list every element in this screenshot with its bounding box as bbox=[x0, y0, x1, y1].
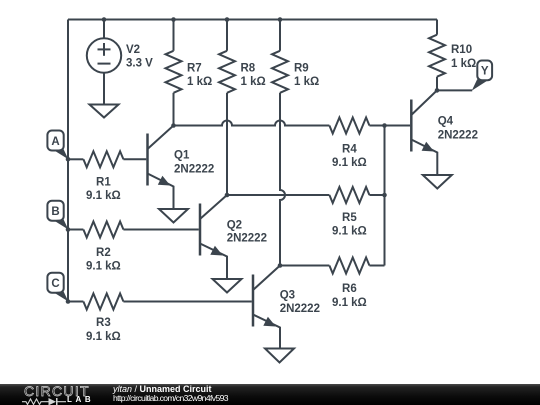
node Q2 collector / R8 bottom bbox=[225, 193, 230, 198]
transistor Q1 bbox=[148, 126, 174, 210]
svg-text:9.1 kΩ: 9.1 kΩ bbox=[86, 260, 121, 272]
svg-text:B: B bbox=[51, 206, 59, 218]
svg-text:1 kΩ: 1 kΩ bbox=[241, 76, 266, 88]
svg-text:R2: R2 bbox=[96, 247, 111, 259]
logo resistor-diode icon bbox=[22, 397, 68, 405]
resistor R5 bbox=[329, 187, 384, 203]
wire Q4 base bbox=[385, 125, 411, 127]
voltage source V2 bbox=[87, 20, 121, 105]
flag Y bbox=[472, 61, 492, 91]
node C input junction bbox=[66, 299, 71, 304]
svg-text:R4: R4 bbox=[342, 144, 357, 156]
ground under Q2 bbox=[213, 279, 242, 293]
node Q4 base / R4 right bbox=[382, 123, 387, 128]
node R5 right on bus bbox=[382, 193, 387, 198]
svg-text:9.1 kΩ: 9.1 kΩ bbox=[332, 157, 367, 169]
node Q3 collector / R9 bottom bbox=[278, 263, 283, 268]
footer bar bbox=[0, 384, 540, 405]
svg-text:2N2222: 2N2222 bbox=[280, 303, 320, 315]
transistor Q4 bbox=[411, 90, 437, 175]
node A input junction bbox=[66, 157, 71, 162]
resistor R7 bbox=[166, 20, 182, 126]
ground under V2 bbox=[90, 105, 119, 118]
svg-text:V2: V2 bbox=[126, 44, 140, 56]
node R9 top on supply rail bbox=[278, 17, 283, 22]
svg-text:R8: R8 bbox=[241, 63, 256, 75]
svg-text:2N2222: 2N2222 bbox=[438, 129, 478, 141]
logo CIRCUIT bbox=[24, 384, 90, 398]
wire output to Y bbox=[437, 89, 472, 91]
svg-text:Q1: Q1 bbox=[174, 150, 190, 162]
svg-text:1 kΩ: 1 kΩ bbox=[187, 76, 212, 88]
footer credit line 1 bbox=[113, 384, 212, 394]
resistor R9 bbox=[272, 20, 288, 266]
svg-text:R1: R1 bbox=[96, 177, 111, 189]
svg-text:C: C bbox=[51, 278, 59, 290]
svg-text:9.1 kΩ: 9.1 kΩ bbox=[332, 297, 367, 309]
svg-text:9.1 kΩ: 9.1 kΩ bbox=[332, 226, 367, 238]
svg-text:9.1 kΩ: 9.1 kΩ bbox=[86, 190, 121, 202]
wire R5 row bbox=[227, 194, 329, 196]
svg-text:R9: R9 bbox=[294, 63, 309, 75]
transistor Q2 bbox=[200, 195, 227, 279]
resistor R8 bbox=[219, 20, 235, 196]
resistor R6 bbox=[280, 258, 385, 274]
logo LAB bbox=[67, 396, 94, 404]
svg-text:R6: R6 bbox=[342, 283, 357, 295]
node R8 top on supply rail bbox=[225, 17, 230, 22]
svg-text:R5: R5 bbox=[342, 212, 357, 224]
wire right vertical bus bbox=[384, 126, 386, 266]
wire left input bus bbox=[67, 20, 69, 302]
svg-text:9.1 kΩ: 9.1 kΩ bbox=[86, 331, 121, 343]
svg-text:2N2222: 2N2222 bbox=[227, 233, 267, 245]
svg-text:R3: R3 bbox=[96, 317, 111, 329]
svg-text:Q2: Q2 bbox=[227, 220, 242, 232]
footer credit line 2 bbox=[113, 393, 228, 403]
svg-text:3.3 V: 3.3 V bbox=[126, 58, 153, 70]
svg-text:1 kΩ: 1 kΩ bbox=[451, 58, 476, 70]
ground under Q3 bbox=[265, 349, 294, 363]
svg-text:A: A bbox=[51, 136, 59, 148]
svg-text:R7: R7 bbox=[187, 63, 202, 75]
resistor R10 bbox=[429, 20, 445, 91]
node R7 top on supply rail bbox=[171, 17, 176, 22]
svg-text:Y: Y bbox=[481, 66, 489, 78]
ground under Q4 bbox=[423, 175, 452, 189]
resistor R4 bbox=[329, 118, 384, 134]
resistor R3 bbox=[68, 294, 252, 310]
svg-text:Q3: Q3 bbox=[280, 290, 295, 302]
resistor R1 bbox=[68, 151, 146, 167]
svg-text:1 kΩ: 1 kΩ bbox=[294, 76, 319, 88]
node V2 top on supply rail bbox=[102, 17, 107, 22]
transistor Q3 bbox=[253, 266, 280, 349]
ground under Q1 bbox=[159, 209, 188, 223]
wire R4 row with hops over R8 R9 bbox=[174, 121, 330, 126]
svg-text:R10: R10 bbox=[451, 44, 472, 56]
svg-text:Q4: Q4 bbox=[438, 116, 454, 128]
svg-text:2N2222: 2N2222 bbox=[174, 164, 214, 176]
flag B bbox=[47, 201, 68, 230]
node Q1 collector / R7 bottom bbox=[171, 123, 176, 128]
node Q4 collector / R10 bottom bbox=[435, 88, 440, 93]
flag A bbox=[47, 131, 68, 160]
resistor R2 bbox=[68, 222, 199, 238]
flag C bbox=[47, 273, 68, 302]
node B input junction bbox=[66, 227, 71, 232]
wire top supply rail bbox=[68, 19, 437, 21]
